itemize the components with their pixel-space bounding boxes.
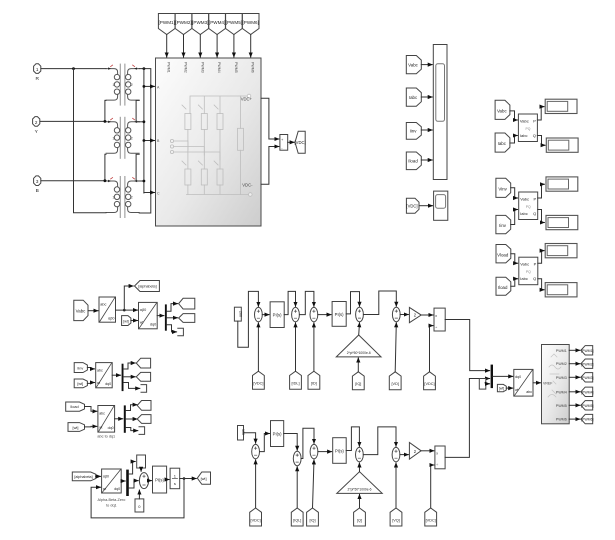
wire PLL block to demux	[121, 480, 125, 482]
input port 3 B	[34, 176, 41, 194]
wire T2 sec bottom link	[136, 154, 139, 181]
Goto tag [PWM1] out	[581, 346, 594, 355]
PI2L block	[333, 438, 347, 464]
wire PWM6 to converter	[250, 35, 252, 58]
svg-text:Iabc: Iabc	[498, 141, 507, 146]
svg-text:αβ0: αβ0	[108, 317, 115, 321]
svg-text:Iload: Iload	[408, 159, 418, 164]
sum1	[255, 307, 263, 321]
svg-text:dq0: dq0	[515, 375, 521, 379]
wire demux C out1	[126, 405, 137, 411]
From tag [PWM5]	[226, 14, 243, 35]
svg-text:Vinv: Vinv	[498, 186, 507, 191]
sum5	[392, 307, 400, 321]
wire VDC to divideL	[431, 465, 434, 508]
wire sum2L to sum3L	[301, 428, 314, 458]
wire demux B out1	[124, 363, 136, 369]
svg-text:PI(s): PI(s)	[335, 312, 344, 317]
From tag Iload chainC	[66, 402, 85, 411]
wire PWM5 to converter	[233, 35, 235, 58]
svg-text:Iinv: Iinv	[499, 223, 507, 228]
svg-text:Iabc: Iabc	[409, 95, 418, 100]
Goto tag Iqload blank	[137, 415, 151, 424]
wire sum5 to gain	[400, 314, 408, 316]
PWM generator block	[542, 345, 570, 424]
wire IDL to sum2	[295, 323, 297, 371]
wire Vabc to scope	[421, 64, 432, 66]
wire sum5L to gainL	[400, 454, 409, 456]
svg-text:[IQL]: [IQL]	[293, 518, 301, 522]
svg-text:wt: wt	[515, 388, 518, 392]
converter input labels	[157, 85, 160, 195]
wire Vinv to PQ2	[511, 188, 518, 198]
wire demux A out2	[167, 317, 178, 319]
svg-text:100: 100	[241, 429, 245, 435]
svg-text:2*pi*50*1000e-6: 2*pi*50*1000e-6	[347, 351, 371, 355]
Goto tag [VDC] L1	[250, 508, 262, 526]
svg-text:[PWM2]: [PWM2]	[581, 362, 593, 366]
svg-text:PWM1: PWM1	[556, 349, 567, 353]
transformer T2	[106, 117, 139, 159]
sum4L	[356, 447, 364, 461]
svg-text:PWM5: PWM5	[556, 404, 567, 408]
integrator 1/s	[170, 468, 180, 489]
divide block upper	[434, 308, 445, 331]
display P2	[546, 177, 578, 191]
wire T2 bottom to T3 input	[105, 154, 106, 180]
wire Iinv to scope	[421, 129, 432, 131]
wire Vabc to abc2ab0	[88, 310, 98, 312]
sum4	[356, 307, 364, 321]
wire sec bus	[143, 69, 145, 193]
wire B to T3	[41, 180, 106, 182]
svg-text:[VDC]: [VDC]	[295, 140, 306, 145]
wire demux B out3	[124, 383, 140, 389]
svg-text:[PWM6]: [PWM6]	[243, 20, 259, 25]
wire alphabeta to PLL block	[96, 475, 101, 477]
From tag [wt] chainC	[68, 423, 85, 432]
svg-text:dq0: dq0	[114, 487, 120, 491]
svg-text:PWM6: PWM6	[556, 418, 567, 422]
svg-text:x: x	[435, 314, 437, 318]
Goto tag [PWM2] out	[581, 359, 594, 368]
From tag [PWM4]	[209, 14, 226, 35]
wire PQ1 P to display	[537, 107, 544, 120]
demux A	[165, 304, 167, 330]
Goto tag [Q] L	[354, 508, 366, 526]
svg-text:PWM6: PWM6	[251, 62, 255, 73]
Goto tag Vq blank	[179, 314, 195, 323]
svg-text:[PWM6]: [PWM6]	[581, 418, 593, 422]
svg-text:[PWM2]: [PWM2]	[175, 20, 191, 25]
wire pwm2 out	[569, 363, 580, 365]
wire sec a to converter	[144, 85, 155, 87]
svg-text:PWM4: PWM4	[556, 390, 567, 394]
Goto tag [ID]	[308, 371, 320, 389]
gain cross-coupling triangle L	[337, 472, 382, 494]
svg-text:[ID]: [ID]	[311, 382, 317, 386]
Goto tag [IQ] L	[307, 508, 319, 526]
From tag Iload g3	[496, 277, 511, 295]
block abc to alphabeta	[99, 297, 116, 322]
svg-text:[IQ]: [IQ]	[309, 518, 315, 522]
From tag Iinv g2	[496, 215, 511, 233]
wire PQ2 Q to display	[538, 210, 545, 223]
wire PWM3 to converter	[199, 35, 201, 58]
wire PI to integrator	[167, 479, 170, 481]
From tag Vload	[496, 245, 511, 263]
power block PQ1	[518, 114, 537, 142]
svg-text:Vabc: Vabc	[76, 309, 86, 314]
svg-text:[PWM4]: [PWM4]	[581, 390, 593, 394]
svg-text:abc: abc	[100, 303, 106, 307]
display Q3	[545, 283, 577, 297]
svg-text:Iinv: Iinv	[77, 366, 83, 370]
wire VD to sum5	[395, 323, 396, 372]
svg-text:[wt]: [wt]	[499, 387, 504, 391]
From tag Vabc g1	[495, 100, 510, 119]
Goto tag [VD]	[389, 372, 401, 390]
wire integrator to wt goto	[180, 478, 197, 480]
wire Iabc to scope	[421, 96, 432, 98]
svg-text:÷: ÷	[435, 325, 437, 329]
constant 100	[238, 426, 245, 441]
power block PQ2	[519, 192, 538, 220]
svg-text:Alpha-Beta-Zero: Alpha-Beta-Zero	[97, 498, 125, 502]
svg-text:PI(s): PI(s)	[155, 478, 164, 483]
wire T1 bottom to T2 input	[105, 100, 106, 121]
sum PLL	[139, 473, 148, 489]
svg-text:[VDC]: [VDC]	[424, 382, 434, 386]
wire PI1L to sum2L	[284, 434, 298, 451]
svg-text:[VDC]: [VDC]	[253, 382, 263, 386]
svg-text:wt: wt	[140, 321, 143, 325]
svg-text:VDC-: VDC-	[242, 182, 253, 187]
PI2 block	[332, 302, 346, 327]
wire T3 sec top join	[139, 180, 144, 182]
scope block VDC	[434, 191, 448, 220]
Goto tag [IQ] u	[352, 372, 364, 390]
mux bar	[491, 365, 493, 389]
svg-text:2*pi*50*1000e-6: 2*pi*50*1000e-6	[347, 487, 371, 491]
wire dq block to demux A	[157, 315, 164, 317]
svg-text:[IDL]: [IDL]	[291, 382, 299, 386]
svg-text:[alphabeta]: [alphabeta]	[74, 475, 92, 479]
converter gate port labels	[167, 62, 255, 73]
wire sec c to converter	[144, 192, 155, 194]
wire Iload to block C	[85, 407, 97, 412]
Goto tag [PWM4] out	[581, 387, 594, 396]
wire VDC- to voltmeter	[261, 147, 279, 185]
PI1 block	[270, 302, 284, 328]
wire sum4L to sum5L	[363, 427, 396, 455]
demux PLL	[126, 470, 129, 496]
wire mux to dq2abc	[493, 375, 513, 377]
svg-text:[PWM4]: [PWM4]	[209, 20, 225, 25]
wire gain to divide u	[421, 314, 433, 316]
display Q1	[546, 138, 578, 152]
wire Iinv to PQ2	[511, 210, 518, 225]
From tag [PWM3]	[192, 14, 209, 35]
gain 2 upper	[409, 307, 421, 322]
wire sum4 to sum5	[363, 291, 396, 315]
wire 100 to sum1L	[244, 433, 256, 444]
wire VDC to sum1	[257, 323, 259, 371]
svg-text:C: C	[157, 192, 160, 196]
wire PQ1 Q to display	[537, 136, 545, 146]
node sec b	[143, 139, 146, 142]
block ab0 to dq0 chainA	[139, 302, 158, 328]
wire ID to sum3	[313, 323, 315, 371]
demux C	[124, 405, 126, 432]
delay block PLL	[137, 455, 146, 468]
svg-text:Vload: Vload	[497, 252, 509, 257]
wire VQ to sum5L	[395, 463, 397, 508]
wire sum2 to sum3	[299, 291, 314, 314]
node T3 input	[104, 179, 107, 182]
wire PI1 to sum2	[284, 291, 295, 314]
svg-text:abc: abc	[526, 390, 532, 394]
terminator chainB	[141, 385, 147, 393]
wire IQ to triangle	[357, 358, 359, 372]
converter subsystem block	[156, 58, 262, 226]
node chainA split	[123, 309, 126, 312]
wire sum3L to PI2L	[318, 451, 332, 453]
wire T1 sec bottom link	[136, 100, 139, 121]
svg-text:PWM2: PWM2	[556, 362, 567, 366]
Goto tag [IQL]	[291, 508, 303, 526]
PI1L block	[271, 421, 284, 447]
svg-text:[VDC]: [VDC]	[406, 204, 417, 209]
svg-text:B: B	[36, 188, 39, 194]
wire wt to dq block	[131, 320, 138, 322]
sum5L	[392, 447, 400, 461]
wire sum to PI PLL	[149, 480, 152, 482]
svg-text:[VD]: [VD]	[392, 382, 399, 386]
From tag [wt] chainB	[74, 379, 87, 388]
svg-text:[PWM1]: [PWM1]	[159, 20, 175, 25]
svg-text:[PWM5]: [PWM5]	[226, 20, 242, 25]
wire Iload to scope	[421, 159, 432, 161]
wire pwm3 out	[569, 376, 580, 378]
svg-text:200: 200	[238, 311, 242, 317]
transformer T3	[106, 176, 139, 218]
wire pwm1 out	[569, 349, 580, 351]
Goto tag [PWM3] out	[581, 373, 594, 382]
svg-text:dq0: dq0	[108, 426, 114, 430]
display Q2	[546, 215, 578, 229]
Goto tag Id blank	[136, 358, 150, 368]
svg-text:[PWM5]: [PWM5]	[581, 404, 593, 408]
block abc to dq0 chainB	[96, 363, 113, 388]
svg-text:PWM3: PWM3	[556, 376, 567, 380]
wire demux PLL out1 to delay	[129, 462, 135, 475]
svg-text:abc to dq1: abc to dq1	[97, 435, 115, 439]
wire divideL to mux	[445, 379, 490, 458]
wire Iload to PQ3	[511, 279, 518, 287]
From tag [PWM2]	[175, 14, 192, 35]
wire wt to block C	[85, 425, 97, 428]
divide block lower	[435, 446, 445, 469]
svg-text:[Q]: [Q]	[357, 518, 362, 522]
From tag Vinv	[496, 178, 511, 197]
Goto tag Vd blank	[179, 298, 195, 309]
wire sec b to converter	[144, 140, 155, 142]
wire IQL to sum2L	[296, 467, 298, 508]
svg-text:[VDC]: [VDC]	[251, 518, 261, 522]
input port 1 R	[34, 64, 41, 82]
wire delay to sum top	[140, 468, 142, 471]
node PLL out	[183, 477, 186, 480]
svg-text:PI(s): PI(s)	[273, 313, 282, 318]
wire Vload to PQ3	[511, 254, 518, 264]
wire R to T1	[41, 68, 106, 70]
svg-text:Iinv: Iinv	[410, 129, 418, 134]
svg-text:abc: abc	[99, 412, 105, 416]
display P1	[545, 99, 577, 113]
svg-text:abc: abc	[97, 369, 103, 373]
svg-text:VDC+: VDC+	[241, 96, 253, 101]
svg-text:Iload: Iload	[70, 405, 78, 409]
Goto tag [VQ]	[390, 508, 402, 526]
svg-text:[VQ]: [VQ]	[392, 518, 400, 522]
From tag [wt] out	[497, 384, 506, 391]
wire VDC to scope2	[419, 205, 433, 207]
wire sum1L to PI1L	[260, 434, 270, 452]
svg-text:PWM2: PWM2	[184, 62, 188, 73]
From tag Vabc chainA	[74, 300, 88, 320]
svg-text:[IQ]: [IQ]	[355, 382, 361, 386]
wire Y to T2	[40, 120, 106, 122]
wire wt to block B	[87, 382, 94, 385]
sum3L	[310, 444, 318, 458]
wire PWM2 to converter	[183, 35, 185, 58]
wire block B to demux B	[112, 374, 120, 376]
svg-text:[wt]: [wt]	[77, 382, 83, 386]
wire block C to demux C	[115, 418, 123, 420]
wire delta return	[74, 69, 107, 213]
Goto tag [VDC]	[295, 131, 306, 153]
svg-text:[PWM3]: [PWM3]	[581, 376, 593, 380]
PI block PLL	[153, 466, 167, 493]
From tag [PWM1]	[158, 14, 175, 35]
svg-text:R: R	[35, 76, 39, 82]
svg-text:PI(s): PI(s)	[335, 449, 344, 454]
display P3	[545, 244, 577, 258]
wire sum1 to PI1	[262, 314, 269, 316]
svg-text:dq0: dq0	[105, 382, 111, 386]
svg-text:[wt]: [wt]	[123, 319, 129, 323]
wire Iabc to PQ1	[510, 136, 518, 144]
wire 200 to sum1	[238, 291, 259, 347]
svg-text:VREF: VREF	[543, 382, 552, 386]
wire dq2abc to pwmgen	[533, 382, 541, 384]
Goto tag [IDL]	[290, 371, 302, 389]
svg-text:wt: wt	[99, 426, 102, 430]
converter internal bridge circuit (faint)	[170, 94, 252, 196]
Goto tag [VDC] u1	[253, 371, 265, 389]
Goto tag [VDC] u2	[424, 372, 436, 390]
wire VDC+ to voltmeter	[261, 98, 279, 139]
node sec a	[143, 85, 146, 88]
From tag [alphabeta] PLL	[72, 472, 95, 481]
sum1L	[252, 444, 260, 458]
Goto tag [VDC] L2	[425, 508, 437, 526]
wire PQ2 P to display	[538, 184, 545, 198]
svg-text:[PWM1]: [PWM1]	[581, 349, 593, 353]
svg-text:s: s	[174, 481, 176, 486]
svg-text:3: 3	[36, 179, 39, 184]
From tag [wt] chainA	[122, 316, 131, 326]
Goto tag [PWM5] out	[581, 401, 594, 410]
wire Q to triangleL	[359, 494, 361, 508]
wire PI2 to sum4	[346, 292, 359, 314]
wire divide u to mux	[445, 320, 489, 371]
node T3 sec join	[143, 180, 146, 183]
wire T2 sec top join	[139, 121, 144, 123]
sum2L	[293, 451, 301, 465]
wire demux A out1	[167, 304, 178, 312]
svg-text:αβ0: αβ0	[140, 308, 147, 312]
wire 0 to mux	[486, 383, 490, 385]
svg-text:wt: wt	[97, 381, 100, 385]
wire sum3 to PI2	[318, 314, 331, 316]
node T2 input	[104, 120, 107, 123]
Goto tag [PWM6] out	[581, 414, 594, 423]
wire VDC to sum1L	[255, 460, 257, 508]
From tag Iinv	[406, 123, 421, 140]
demux B	[122, 364, 124, 391]
wire gainL to divideL	[421, 450, 434, 452]
node R-delta	[72, 67, 75, 70]
From tag Vabc	[406, 56, 421, 74]
svg-text:÷: ÷	[436, 463, 438, 467]
gain 2 lower	[409, 443, 421, 460]
Goto tag Iq blank	[136, 372, 150, 381]
wire to alphabeta goto	[116, 286, 134, 310]
wire PI2L to sum4L	[346, 427, 359, 451]
svg-text:[VDC]: [VDC]	[426, 518, 436, 522]
wire PLL feedback	[91, 479, 184, 518]
svg-text:[alphabeta]: [alphabeta]	[138, 285, 156, 289]
input port 2 Y	[33, 117, 40, 135]
block abc to dq1 chainC	[98, 406, 115, 433]
wire PQ3 Q to display	[538, 279, 544, 290]
wire triangle to sum4	[358, 323, 361, 335]
wire Vabc to PQ1	[510, 111, 518, 120]
transformer T1	[106, 64, 139, 106]
svg-text:PWM3: PWM3	[200, 62, 204, 73]
svg-text:to dq1: to dq1	[106, 504, 117, 508]
wire PWM1 to converter	[166, 35, 168, 58]
block dq0 to abc	[514, 369, 533, 396]
svg-text:x: x	[436, 452, 438, 456]
wire demux C out2	[126, 418, 137, 420]
node sec top	[143, 67, 146, 70]
svg-text:Vabc: Vabc	[497, 108, 507, 113]
constant 0 block PLL	[135, 499, 144, 512]
From tag Iload	[406, 152, 421, 170]
terminator chainC	[139, 427, 145, 435]
wire voltmeter to VDC goto	[288, 141, 295, 143]
Goto tag [alphabeta]	[135, 281, 160, 292]
constant 0 refblock	[479, 379, 487, 390]
svg-text:PWM4: PWM4	[217, 62, 221, 73]
svg-text:PWM5: PWM5	[234, 62, 238, 73]
wire VDC to divide u	[430, 326, 434, 372]
sum3	[310, 307, 318, 321]
svg-text:wt: wt	[103, 487, 106, 491]
